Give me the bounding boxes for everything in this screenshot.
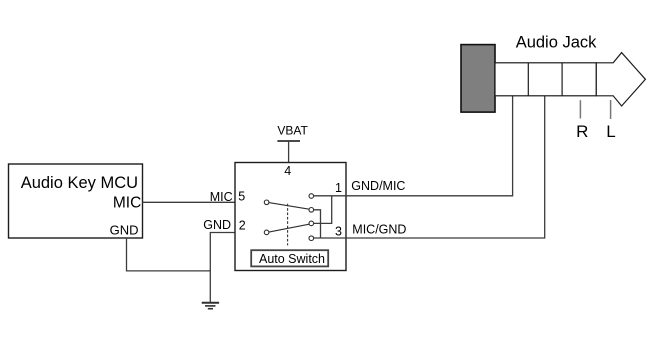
wire VBAT to switch pin 4	[288, 141, 290, 163]
contact circle pin5	[264, 200, 269, 205]
svg-text:Auto Switch: Auto Switch	[259, 252, 325, 266]
switch box U?	[235, 163, 346, 271]
barrel divider 2	[561, 63, 563, 96]
svg-text:3: 3	[335, 224, 342, 238]
svg-text:L: L	[606, 122, 615, 141]
tick L	[610, 100, 612, 119]
contact circle pin1 row	[309, 194, 314, 199]
contact circle B	[309, 208, 314, 213]
svg-text:MIC: MIC	[210, 190, 233, 204]
jack tip	[596, 53, 645, 106]
contact circle pin2	[264, 230, 269, 235]
switch blade pin5 to middle contact	[269, 203, 309, 210]
wire contact B to pin3 wire	[314, 210, 321, 238]
wire pin3 inside box to circle	[314, 237, 346, 239]
tick R	[579, 100, 581, 118]
wire GND/MIC net pin1 to jack	[346, 96, 513, 196]
svg-text:2: 2	[239, 219, 246, 233]
switch linkage dashed line	[287, 204, 289, 246]
svg-text:GND: GND	[110, 223, 139, 238]
svg-text:GND: GND	[203, 218, 231, 232]
barrel divider 1	[527, 63, 529, 96]
svg-text:4: 4	[284, 164, 291, 178]
svg-text:GND/MIC: GND/MIC	[351, 179, 405, 193]
MCU U? box Audio Key MCU	[9, 164, 143, 238]
wire MIC net: MCU to switch pin 5	[143, 201, 236, 203]
svg-text:Audio Key MCU: Audio Key MCU	[21, 174, 138, 192]
svg-text:R: R	[576, 122, 588, 141]
svg-text:1: 1	[335, 181, 342, 195]
wire MIC/GND net pin3 to jack	[346, 96, 545, 238]
svg-text:MIC: MIC	[113, 195, 141, 212]
wire GND net: switch pin 2 left then down to ground	[210, 233, 235, 303]
audio jack barrel	[495, 63, 596, 96]
svg-text:5: 5	[238, 190, 245, 204]
ground symbol	[202, 303, 219, 309]
audio jack body gray block	[461, 45, 495, 113]
wire MCU GND down and right	[127, 238, 211, 271]
auto switch label box	[251, 250, 328, 266]
wire pin1 inside box to circle	[314, 195, 346, 197]
svg-text:Audio Jack: Audio Jack	[516, 33, 597, 51]
wire contact C to pin1 wire	[314, 196, 332, 224]
svg-text:VBAT: VBAT	[277, 123, 308, 137]
svg-text:MIC/GND: MIC/GND	[352, 223, 406, 237]
contact circle C	[309, 221, 314, 226]
switch blade pin2 to middle contact	[269, 224, 309, 232]
contact circle pin3 row	[309, 236, 314, 241]
